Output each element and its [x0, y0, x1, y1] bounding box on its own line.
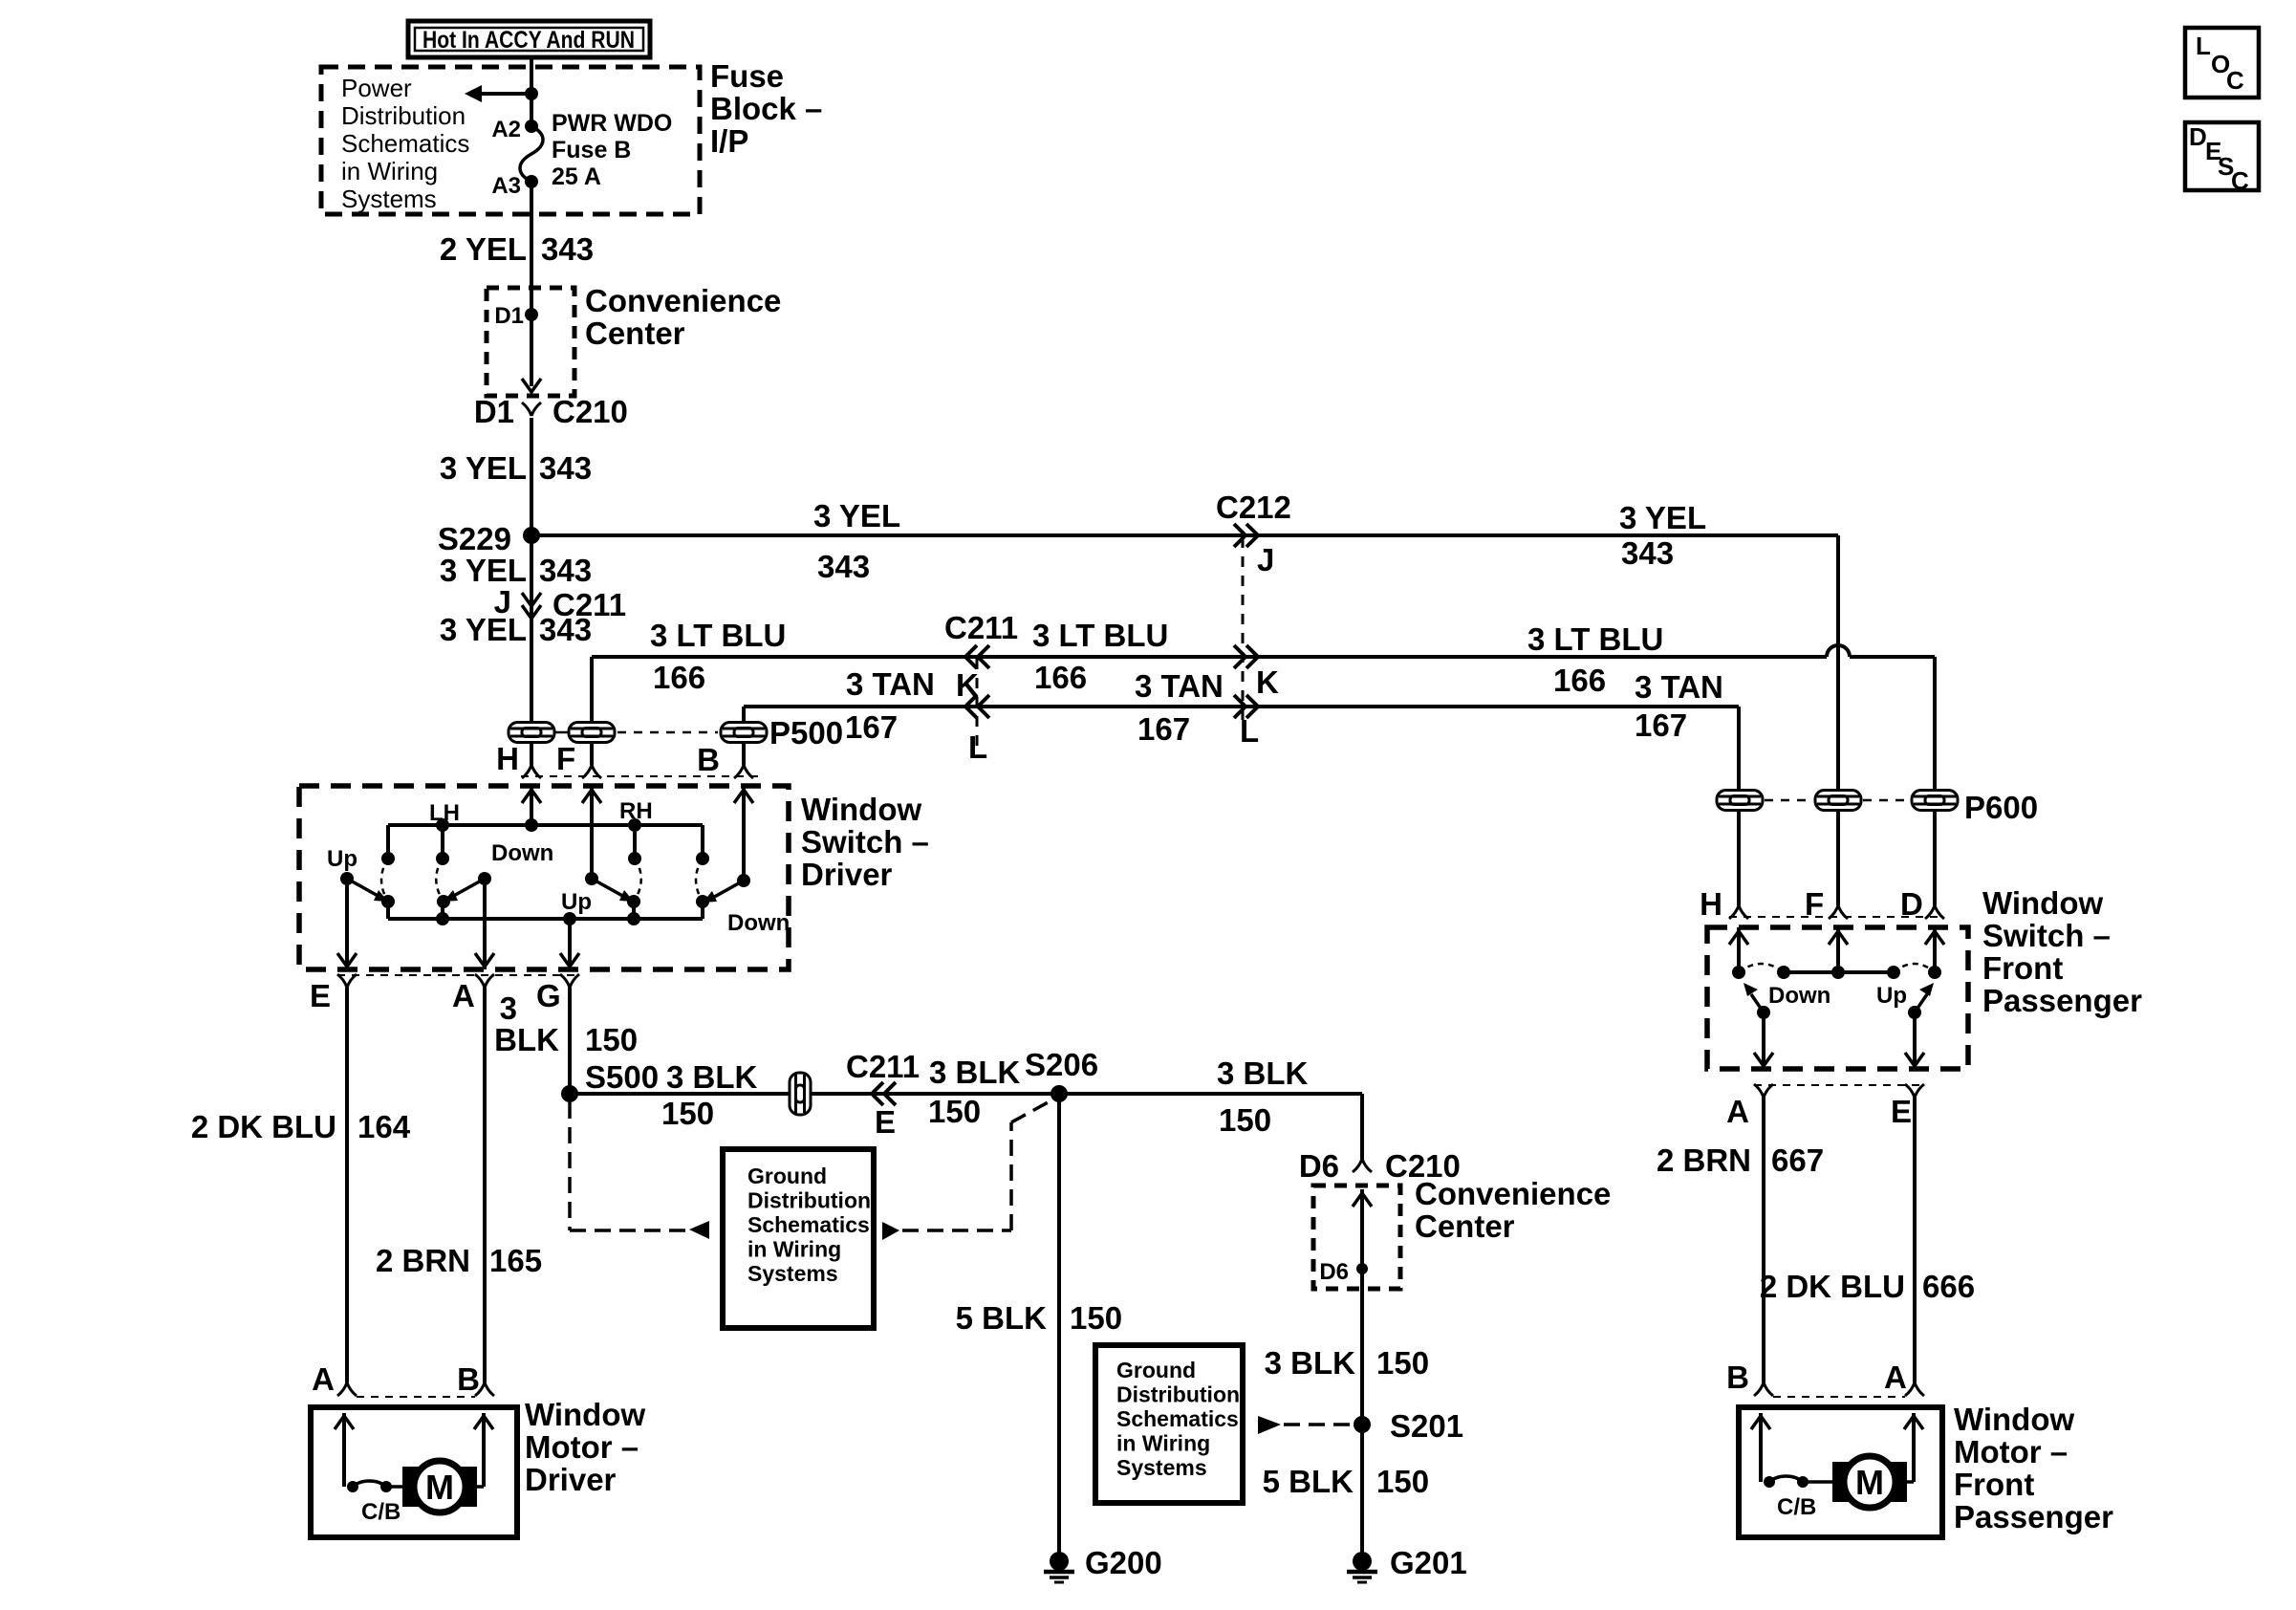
- svg-text:F: F: [1805, 886, 1824, 922]
- svg-text:H: H: [496, 741, 519, 776]
- svg-text:3 LT BLU: 3 LT BLU: [650, 618, 786, 653]
- svg-text:166: 166: [653, 660, 705, 695]
- svg-text:Ground: Ground: [747, 1164, 827, 1188]
- svg-text:3 YEL: 3 YEL: [813, 498, 900, 533]
- svg-text:Hot In ACCY And RUN: Hot In ACCY And RUN: [422, 27, 635, 54]
- svg-text:E: E: [310, 978, 331, 1013]
- svg-text:D: D: [1900, 886, 1923, 922]
- svg-text:150: 150: [661, 1096, 714, 1131]
- svg-text:in Wiring: in Wiring: [1116, 1431, 1210, 1456]
- svg-text:D1: D1: [474, 394, 514, 429]
- svg-text:150: 150: [1070, 1300, 1122, 1336]
- svg-text:Schematics: Schematics: [341, 129, 469, 158]
- svg-text:M: M: [1855, 1463, 1884, 1502]
- svg-text:D1: D1: [494, 303, 524, 329]
- svg-text:Convenience: Convenience: [585, 283, 781, 318]
- svg-text:Driver: Driver: [525, 1462, 617, 1497]
- svg-text:Up: Up: [561, 889, 592, 915]
- svg-text:150: 150: [1376, 1464, 1429, 1499]
- svg-text:167: 167: [1635, 707, 1687, 743]
- svg-text:343: 343: [539, 612, 592, 647]
- svg-text:3 LT BLU: 3 LT BLU: [1527, 621, 1663, 657]
- svg-text:L: L: [2196, 32, 2211, 60]
- svg-text:C: C: [2231, 166, 2249, 195]
- svg-text:3 YEL: 3 YEL: [1619, 500, 1706, 535]
- svg-text:3 BLK: 3 BLK: [1265, 1345, 1356, 1381]
- svg-text:D: D: [2189, 122, 2207, 151]
- svg-text:I/P: I/P: [710, 123, 748, 159]
- svg-text:5 BLK: 5 BLK: [1263, 1464, 1354, 1499]
- svg-text:Fuse B: Fuse B: [552, 137, 631, 163]
- svg-text:Switch –: Switch –: [801, 824, 929, 859]
- svg-text:25 A: 25 A: [552, 163, 601, 190]
- svg-text:C211: C211: [846, 1049, 920, 1084]
- svg-text:150: 150: [928, 1094, 981, 1129]
- svg-text:Driver: Driver: [801, 857, 893, 892]
- svg-text:2 BRN: 2 BRN: [376, 1243, 470, 1278]
- svg-text:Motor –: Motor –: [525, 1429, 639, 1465]
- svg-text:J: J: [1257, 542, 1274, 577]
- svg-text:S500: S500: [585, 1059, 659, 1095]
- svg-text:Window: Window: [525, 1397, 645, 1432]
- svg-text:165: 165: [489, 1243, 542, 1278]
- svg-text:Window: Window: [801, 792, 921, 827]
- svg-text:167: 167: [845, 709, 898, 745]
- svg-text:2 YEL: 2 YEL: [440, 231, 527, 267]
- svg-text:Ground: Ground: [1116, 1358, 1196, 1382]
- svg-text:2 BRN: 2 BRN: [1657, 1142, 1751, 1178]
- svg-text:D6: D6: [1299, 1148, 1339, 1184]
- svg-text:Up: Up: [327, 846, 357, 872]
- svg-text:C212: C212: [1216, 490, 1291, 525]
- svg-text:343: 343: [1621, 535, 1674, 571]
- svg-text:B: B: [697, 742, 720, 777]
- svg-text:PWR WDO: PWR WDO: [552, 110, 672, 137]
- svg-text:Down: Down: [727, 910, 790, 936]
- svg-text:in Wiring: in Wiring: [341, 157, 438, 185]
- svg-text:A2: A2: [491, 117, 521, 142]
- svg-text:343: 343: [539, 553, 592, 588]
- svg-text:Window: Window: [1982, 885, 2103, 921]
- svg-text:Schematics: Schematics: [747, 1212, 870, 1237]
- svg-text:5 BLK: 5 BLK: [956, 1300, 1048, 1336]
- svg-text:3 TAN: 3 TAN: [846, 666, 935, 702]
- svg-text:Systems: Systems: [747, 1261, 838, 1286]
- svg-text:G200: G200: [1085, 1545, 1162, 1580]
- svg-text:S206: S206: [1025, 1047, 1098, 1082]
- svg-text:Down: Down: [1768, 983, 1830, 1009]
- svg-text:Center: Center: [585, 315, 685, 351]
- svg-text:Down: Down: [491, 840, 553, 866]
- svg-text:Distribution: Distribution: [747, 1188, 871, 1213]
- svg-text:Front: Front: [1982, 950, 2063, 986]
- svg-text:666: 666: [1922, 1269, 1975, 1304]
- svg-text:A: A: [452, 978, 475, 1013]
- svg-text:Systems: Systems: [1116, 1455, 1207, 1480]
- svg-text:C/B: C/B: [1777, 1494, 1816, 1520]
- svg-text:A: A: [312, 1361, 335, 1397]
- svg-text:3 BLK: 3 BLK: [929, 1055, 1021, 1090]
- svg-text:3 TAN: 3 TAN: [1635, 669, 1723, 705]
- svg-text:166: 166: [1553, 663, 1606, 698]
- svg-text:167: 167: [1137, 711, 1190, 747]
- svg-text:B: B: [1726, 1360, 1749, 1395]
- svg-text:Convenience: Convenience: [1415, 1176, 1611, 1211]
- svg-text:Window: Window: [1954, 1402, 2074, 1437]
- svg-text:M: M: [425, 1468, 454, 1507]
- svg-text:Distribution: Distribution: [1116, 1382, 1240, 1407]
- svg-text:Switch –: Switch –: [1982, 918, 2111, 953]
- svg-text:C: C: [2226, 66, 2244, 95]
- svg-text:D6: D6: [1319, 1259, 1349, 1285]
- svg-text:in Wiring: in Wiring: [747, 1237, 841, 1262]
- svg-text:164: 164: [357, 1109, 411, 1144]
- svg-text:150: 150: [1376, 1345, 1429, 1381]
- svg-text:P500: P500: [769, 715, 843, 751]
- svg-text:3: 3: [500, 990, 517, 1026]
- svg-text:3 YEL: 3 YEL: [440, 612, 527, 647]
- svg-text:B: B: [457, 1361, 480, 1397]
- svg-text:C/B: C/B: [361, 1499, 401, 1525]
- svg-text:343: 343: [541, 231, 594, 267]
- svg-text:P600: P600: [1964, 790, 2038, 825]
- svg-text:Center: Center: [1415, 1208, 1515, 1244]
- svg-text:A: A: [1884, 1360, 1907, 1395]
- svg-text:Power: Power: [341, 74, 412, 102]
- svg-text:BLK: BLK: [494, 1022, 559, 1057]
- svg-text:Up: Up: [1876, 983, 1907, 1009]
- svg-text:C211: C211: [944, 610, 1018, 645]
- svg-text:L: L: [968, 729, 987, 765]
- svg-text:343: 343: [539, 450, 592, 486]
- svg-text:Systems: Systems: [341, 185, 437, 213]
- svg-text:Passenger: Passenger: [1982, 983, 2142, 1018]
- svg-text:A3: A3: [491, 173, 521, 199]
- svg-text:H: H: [1700, 886, 1722, 922]
- svg-text:2 DK BLU: 2 DK BLU: [191, 1109, 336, 1144]
- svg-text:LH: LH: [429, 800, 460, 826]
- svg-text:F: F: [556, 741, 575, 776]
- svg-text:G: G: [536, 978, 561, 1013]
- svg-text:C210: C210: [552, 394, 628, 429]
- svg-text:667: 667: [1771, 1142, 1824, 1178]
- svg-text:G201: G201: [1390, 1545, 1467, 1580]
- svg-text:150: 150: [1219, 1102, 1271, 1138]
- svg-text:3 TAN: 3 TAN: [1135, 668, 1224, 704]
- svg-text:Schematics: Schematics: [1116, 1406, 1239, 1431]
- svg-text:3 BLK: 3 BLK: [1217, 1055, 1309, 1091]
- svg-text:3 LT BLU: 3 LT BLU: [1032, 618, 1168, 653]
- svg-text:166: 166: [1034, 660, 1087, 695]
- svg-text:Distribution: Distribution: [341, 101, 466, 130]
- svg-text:150: 150: [585, 1022, 638, 1057]
- svg-text:Front: Front: [1954, 1467, 2034, 1502]
- svg-text:Block –: Block –: [710, 91, 822, 126]
- svg-text:3 YEL: 3 YEL: [440, 450, 527, 486]
- svg-text:3 YEL: 3 YEL: [440, 553, 527, 588]
- svg-text:3 BLK: 3 BLK: [666, 1059, 758, 1095]
- svg-text:Motor –: Motor –: [1954, 1434, 2068, 1469]
- svg-text:Fuse: Fuse: [710, 58, 784, 94]
- svg-text:E: E: [875, 1104, 896, 1140]
- svg-text:K: K: [1256, 664, 1279, 700]
- svg-text:A: A: [1726, 1094, 1749, 1129]
- svg-text:S229: S229: [438, 521, 511, 556]
- svg-text:RH: RH: [619, 798, 653, 824]
- svg-text:343: 343: [817, 549, 870, 584]
- svg-text:E: E: [1891, 1094, 1912, 1129]
- svg-text:S201: S201: [1390, 1408, 1463, 1444]
- svg-text:2 DK BLU: 2 DK BLU: [1760, 1269, 1905, 1304]
- svg-text:Passenger: Passenger: [1954, 1499, 2113, 1534]
